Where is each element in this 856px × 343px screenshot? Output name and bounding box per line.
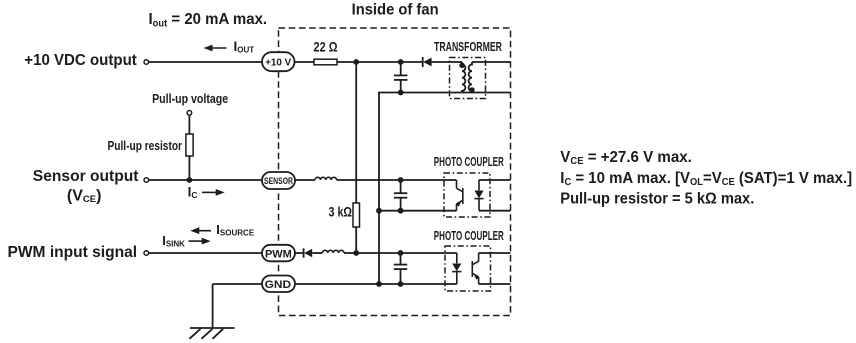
svg-text:+10 V: +10 V: [265, 57, 291, 69]
wire: sensor return line: [379, 210, 457, 212]
PC1 phototransistor: [456, 180, 463, 211]
photo coupler PC2: [445, 246, 491, 291]
svg-text:GND: GND: [265, 279, 291, 291]
PC1 LED: [474, 180, 483, 211]
wire: pull-up: [188, 116, 190, 180]
node: junction C1 bottom: [398, 90, 404, 96]
fan enclosure dashed boundary: [279, 28, 511, 316]
node: GND / C3: [398, 281, 404, 287]
current arrow ISOURCE: [190, 227, 211, 234]
svg-text:PHOTO COUPLER: PHOTO COUPLER: [434, 155, 504, 169]
svg-text:TRANSFORMER: TRANSFORMER: [434, 40, 502, 54]
current arrow IC: [202, 189, 225, 196]
wire: transformer secondary bottom to border: [462, 92, 511, 94]
svg-text:22 Ω: 22 Ω: [314, 39, 338, 55]
PC2 phototransistor: [472, 253, 479, 284]
capacitor C3: [394, 253, 407, 284]
svg-text:IC = 10 mA max. [VOL=VCE (SAT): IC = 10 mA max. [VOL=VCE (SAT)=1 V max.]: [560, 170, 852, 189]
terminal: pull-up voltage: [187, 111, 192, 116]
svg-text:Sensor output: Sensor output: [33, 168, 139, 185]
svg-text:+10 VDC output: +10 VDC output: [24, 52, 137, 69]
resistor: pull-up: [186, 134, 193, 156]
pin: PWM oval: [262, 245, 295, 261]
node: sensor line / C2: [398, 177, 404, 183]
ground symbol: [189, 328, 234, 339]
node: sensor return / C2: [398, 208, 404, 214]
terminal: sensor output: [144, 178, 149, 183]
wire: sensor output line: [149, 179, 262, 181]
transformer T1: [450, 58, 486, 99]
pin: GND oval: [262, 276, 295, 293]
wire: transformer primary bottom return: [379, 93, 462, 285]
node: junction B (top rail / C1): [398, 59, 404, 65]
inductor L1: [315, 177, 337, 180]
svg-text:Pull-up voltage: Pull-up voltage: [152, 91, 228, 106]
label: Iout = 20 mA max.: [149, 10, 268, 29]
current arrow IOUT: [204, 45, 227, 52]
inductor L2: [322, 250, 344, 253]
node: PWM / 3k: [353, 250, 359, 256]
node: PWM / C3: [398, 250, 404, 256]
svg-text:Pull-up resistor = 5 kΩ max.: Pull-up resistor = 5 kΩ max.: [560, 190, 754, 207]
wire: GND line: [213, 283, 262, 285]
capacitor C2: [394, 180, 407, 211]
svg-text:PWM input signal: PWM input signal: [8, 244, 138, 261]
transformer phase dot primary: [459, 63, 464, 68]
node: sensor return / transformer rail: [376, 208, 382, 214]
node: pull-up junction: [187, 177, 193, 183]
wire: top rail inside fan: [295, 61, 315, 63]
svg-text:3 kΩ: 3 kΩ: [329, 205, 353, 220]
svg-text:SENSOR: SENSOR: [264, 176, 293, 186]
wire: PC2 outputs to border: [479, 252, 511, 254]
terminal: PWM input: [144, 251, 149, 256]
transformer phase dot secondary: [469, 87, 474, 92]
wire: PC1 outputs to border: [479, 179, 511, 181]
resistor: 22 ohm: [314, 59, 337, 65]
node: junction A (top rail / 3k line): [353, 59, 359, 65]
pin: +10V oval: [262, 52, 295, 71]
PC2 LED: [452, 253, 461, 284]
label: Ic = 10 mA max. [VOL=VCE (SAT)=1 V max.]: [560, 170, 852, 189]
svg-text:PHOTO COUPLER: PHOTO COUPLER: [434, 229, 504, 243]
photo coupler PC1: [444, 173, 490, 217]
wire: PWM input line: [149, 252, 262, 254]
current arrow ISINK: [189, 238, 211, 245]
wire: sensor line inside fan: [295, 179, 315, 181]
pin: SENSOR oval: [262, 172, 295, 189]
wire: +10 VDC output line: [149, 61, 262, 63]
svg-text:Pull-up resistor: Pull-up resistor: [108, 138, 183, 153]
resistor: 3k ohm: [353, 203, 360, 227]
diode D2: [295, 248, 322, 257]
primary winding: [462, 62, 465, 93]
svg-text:Inside of fan: Inside of fan: [352, 2, 439, 19]
wire: transformer secondary top to border: [472, 61, 511, 63]
wire: sensor line to photocoupler: [337, 179, 457, 181]
wire: GND drop: [212, 284, 214, 328]
terminal: +10 VDC output: [144, 60, 149, 65]
svg-text:PWM: PWM: [265, 248, 292, 260]
capacitor C1: [394, 62, 407, 93]
wire: PWM line to photocoupler: [344, 252, 457, 254]
node: GND / transformer rail: [376, 281, 382, 287]
secondary winding: [469, 62, 472, 93]
diode D1: [423, 57, 462, 67]
wire: 3k ohm rail: [355, 62, 357, 253]
